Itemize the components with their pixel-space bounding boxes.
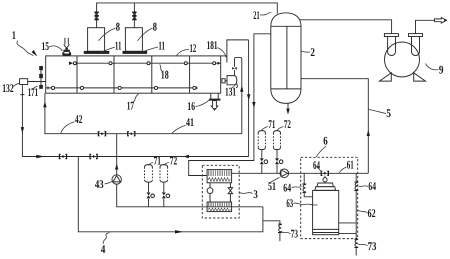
svg-text:71: 71 — [154, 154, 161, 168]
svg-text:181: 181 — [207, 38, 218, 52]
svg-text:12: 12 — [190, 41, 197, 55]
svg-text:15: 15 — [42, 39, 50, 53]
svg-text:41: 41 — [186, 115, 194, 129]
svg-text:72: 72 — [170, 154, 177, 168]
svg-text:51: 51 — [268, 179, 276, 193]
svg-text:61: 61 — [347, 157, 354, 171]
svg-text:3: 3 — [253, 187, 257, 201]
svg-text:8: 8 — [153, 19, 157, 33]
svg-text:62: 62 — [368, 206, 376, 220]
svg-text:43: 43 — [95, 177, 104, 191]
svg-text:11: 11 — [115, 38, 122, 52]
svg-text:132: 132 — [2, 81, 14, 95]
svg-text:8: 8 — [116, 19, 120, 33]
svg-text:1: 1 — [12, 28, 16, 42]
svg-text:64: 64 — [313, 158, 320, 172]
svg-text:11: 11 — [158, 38, 165, 52]
svg-text:18: 18 — [161, 68, 169, 82]
svg-text:2: 2 — [310, 45, 315, 59]
svg-text:42: 42 — [75, 112, 82, 126]
svg-text:171: 171 — [28, 85, 38, 99]
svg-text:71: 71 — [268, 117, 275, 131]
svg-text:9: 9 — [439, 62, 444, 76]
svg-text:6: 6 — [323, 134, 328, 148]
svg-text:5: 5 — [386, 106, 391, 120]
svg-text:63: 63 — [286, 196, 293, 210]
svg-text:73: 73 — [368, 239, 377, 253]
svg-text:16: 16 — [187, 99, 195, 113]
svg-text:17: 17 — [127, 99, 134, 113]
svg-text:72: 72 — [284, 117, 291, 131]
svg-text:21: 21 — [253, 8, 259, 22]
svg-text:64: 64 — [283, 181, 291, 195]
svg-text:64: 64 — [368, 179, 376, 193]
svg-text:73: 73 — [291, 227, 298, 241]
svg-text:131: 131 — [225, 85, 236, 99]
